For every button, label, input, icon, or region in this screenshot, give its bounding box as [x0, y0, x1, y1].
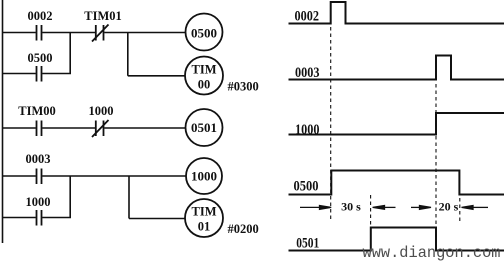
svg-text:1000: 1000	[191, 169, 217, 184]
waveform 0500	[289, 171, 504, 195]
contact 1000 rung5 (NO)	[37, 210, 42, 226]
svg-text:0501: 0501	[296, 235, 319, 251]
label 0500 rung2	[28, 51, 53, 65]
waveform 1000	[289, 113, 504, 135]
svg-text:20 s: 20 s	[439, 200, 459, 214]
svg-text:www.diangon.com: www.diangon.com	[363, 244, 501, 262]
label TIM00 rung3	[18, 104, 56, 118]
signal label 0002	[295, 8, 320, 24]
dashed line A x=330.7	[330, 27, 332, 220]
signal label 1000	[295, 122, 320, 138]
svg-text:#0200: #0200	[228, 222, 259, 236]
wire branch to coil TIM00	[128, 75, 185, 77]
wire rung2 to junction	[42, 73, 71, 75]
svg-text:TIM: TIM	[192, 63, 217, 77]
svg-text:0500: 0500	[294, 179, 319, 195]
label 0003 rung4	[26, 152, 51, 166]
svg-text:TIM00: TIM00	[18, 104, 56, 118]
waveform 0003	[289, 56, 504, 80]
arrow 20s right (points left)	[462, 206, 489, 210]
svg-text:30 s: 30 s	[341, 200, 361, 214]
wire rung1 right to coil 0500	[104, 32, 185, 34]
svg-text:TIM01: TIM01	[84, 9, 122, 23]
svg-text:0002: 0002	[295, 8, 320, 24]
wire branch to coil TIM01	[129, 218, 185, 220]
coil text 0500	[191, 26, 217, 41]
dashed line D x=459.8	[459, 198, 461, 224]
junction vertical rung4-rung5	[69, 176, 71, 218]
signal label 0501	[296, 235, 319, 251]
label 1000 rung5	[26, 195, 51, 209]
svg-text:TIM: TIM	[192, 205, 217, 219]
svg-text:0002: 0002	[28, 9, 53, 23]
waveform 0501	[289, 228, 504, 251]
wire rung2 left	[3, 73, 36, 75]
svg-text:1000: 1000	[89, 104, 114, 118]
label 30 s	[341, 200, 361, 214]
wire rung1 mid	[42, 32, 95, 34]
value label #0200	[228, 222, 259, 236]
wire rung5 to junction	[42, 217, 71, 219]
signal label 0003	[295, 65, 320, 81]
dashed line C x=436	[435, 84, 437, 249]
contact 1000 (NC)	[92, 120, 109, 137]
label 0002 rung1	[28, 9, 53, 23]
coil 0500	[186, 14, 223, 51]
label 1000 rung3	[89, 104, 114, 118]
svg-text:#0300: #0300	[228, 80, 259, 94]
arrow 30s left (points right)	[300, 206, 331, 210]
wire rung4 right to coil 1000	[42, 175, 186, 177]
arrow 20s left (points right)	[411, 206, 431, 210]
branch vertical to TIM00	[127, 33, 129, 76]
svg-text:0003: 0003	[26, 152, 51, 166]
coil TIM01	[185, 199, 223, 237]
left power rail	[2, 0, 4, 243]
contact TIM00 (NO)	[37, 121, 42, 137]
arrow 30s right (points left)	[373, 206, 396, 210]
svg-text:00: 00	[198, 78, 211, 92]
coil text TIM01	[192, 205, 217, 234]
signal label 0500	[294, 179, 319, 195]
wire rung3 right to coil 0501	[104, 127, 185, 129]
contact 0003 (NO)	[37, 169, 42, 185]
svg-text:0500: 0500	[28, 51, 53, 65]
wire rung3 left	[3, 127, 36, 129]
dashed line B x=370.6	[370, 195, 372, 226]
contact 0500 (NO)	[37, 66, 42, 82]
contact TIM01 (NC)	[92, 25, 109, 42]
watermark www.diangon.com	[363, 244, 501, 262]
coil text 0501	[191, 120, 217, 135]
svg-text:1000: 1000	[295, 122, 320, 138]
value label #0300	[228, 80, 259, 94]
coil 1000	[186, 158, 222, 194]
svg-text:0500: 0500	[191, 26, 217, 41]
coil text 1000	[191, 169, 217, 184]
branch vertical to TIM01	[128, 176, 130, 219]
label 20 s	[439, 200, 459, 214]
wire rung4 left	[3, 175, 36, 177]
contact 0002 (NO)	[37, 25, 42, 41]
wire rung3 mid	[42, 127, 95, 129]
svg-text:1000: 1000	[26, 195, 51, 209]
coil TIM00	[185, 57, 223, 95]
coil text TIM00	[192, 63, 217, 92]
wire rung5 left	[3, 217, 36, 219]
coil 0501	[186, 109, 223, 146]
svg-text:0501: 0501	[191, 120, 217, 135]
label TIM01 rung1	[84, 9, 122, 23]
wire rung1 left	[3, 32, 36, 34]
waveform 0002	[289, 2, 504, 24]
svg-text:01: 01	[198, 220, 211, 234]
junction vertical rung1-rung2	[69, 33, 71, 74]
